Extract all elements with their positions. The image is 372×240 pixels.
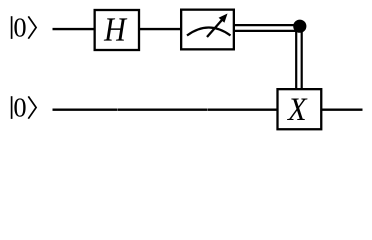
classical double wire horizontal [234,25,300,31]
wire q0 segment left [53,28,96,30]
control dot [293,20,306,33]
meter needle [207,19,223,37]
gate H label [104,18,127,40]
meter needle arrowhead [219,14,228,23]
wire q1 segment right [321,109,363,111]
wire q0 segment middle [139,28,182,30]
meter arc [187,28,231,36]
wire join seam [117,108,119,111]
gate H box [95,10,139,50]
meter M box [181,10,234,50]
node q1 label |0> [12,96,36,119]
node q0 label |0> [12,16,36,39]
wire join seam [207,108,209,111]
gate X box [278,89,322,129]
classical double wire vertical [296,27,302,89]
wire q1 segment left [53,109,280,111]
gate X label [287,98,307,120]
